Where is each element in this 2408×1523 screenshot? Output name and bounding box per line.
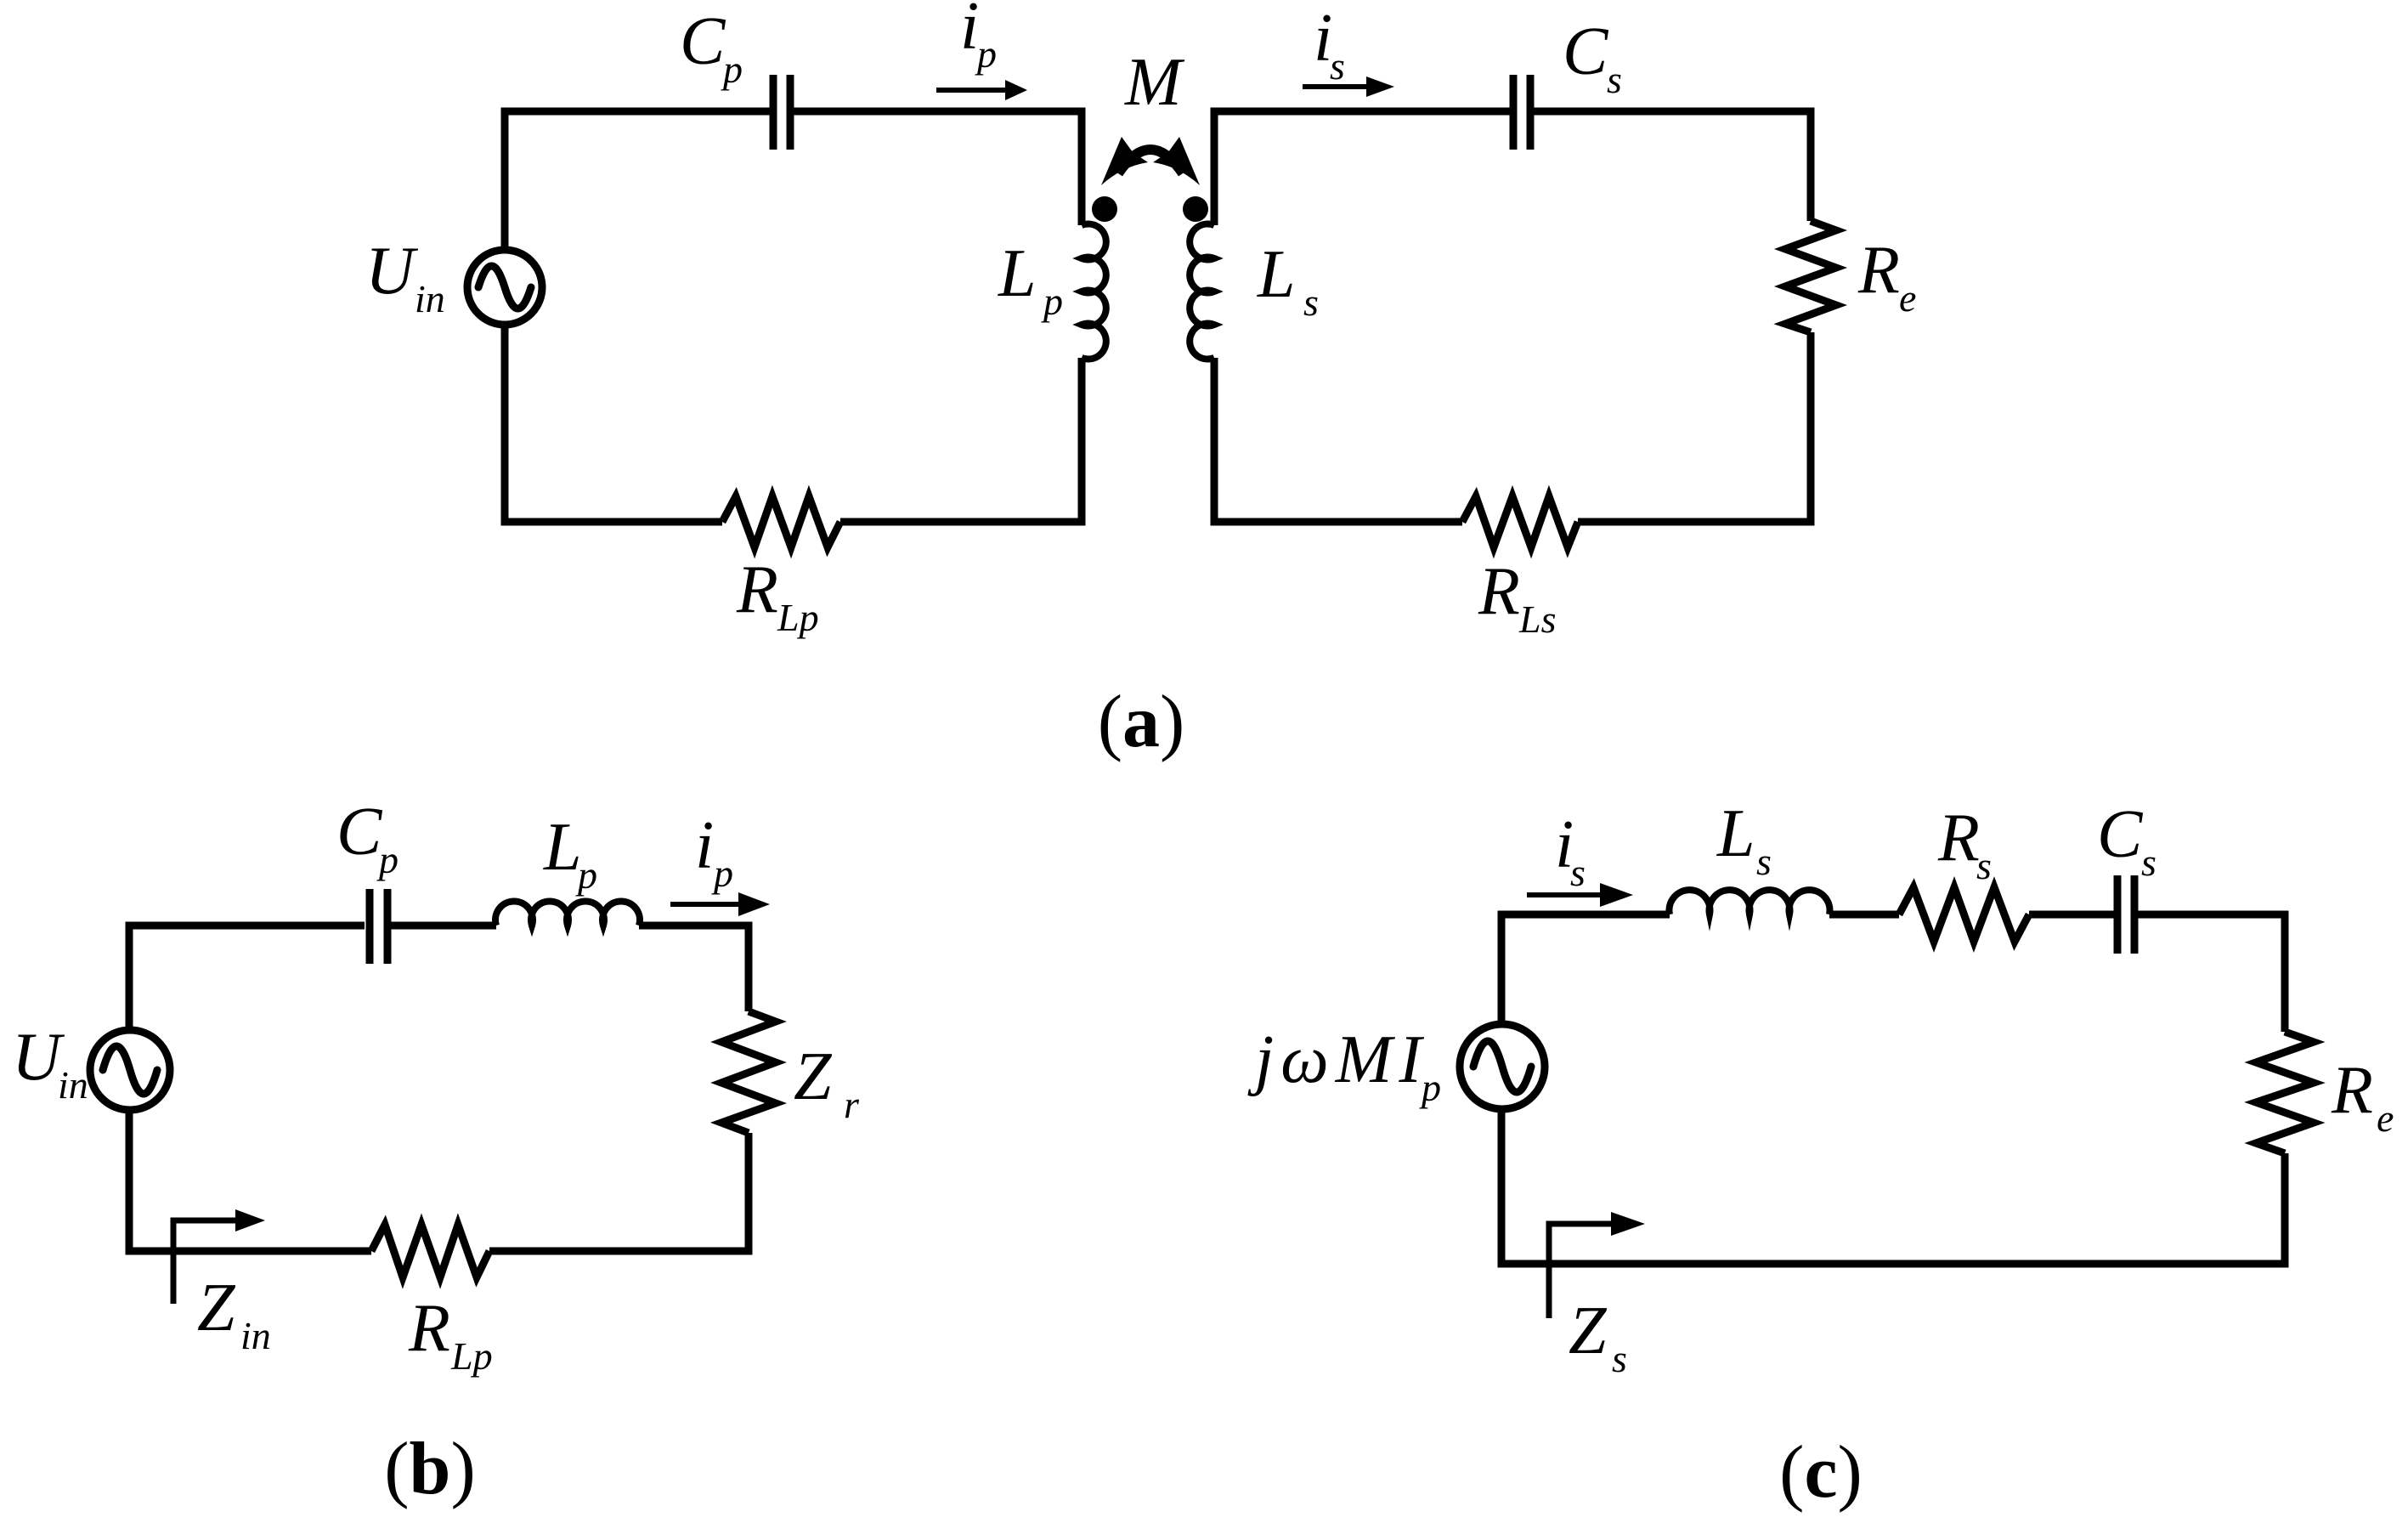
svg-text:r: r bbox=[844, 1083, 860, 1126]
svg-text:R: R bbox=[2331, 1053, 2373, 1128]
svg-text:s: s bbox=[2141, 841, 2156, 884]
svg-text:p: p bbox=[376, 838, 399, 881]
svg-text:s: s bbox=[1330, 44, 1345, 88]
svg-text:s: s bbox=[1607, 58, 1622, 101]
svg-text:Lp: Lp bbox=[450, 1334, 493, 1378]
svg-text:(a): (a) bbox=[1098, 681, 1185, 763]
svg-text:Lp: Lp bbox=[777, 596, 819, 639]
svg-text:(c): (c) bbox=[1779, 1431, 1863, 1514]
svg-text:(b): (b) bbox=[384, 1428, 476, 1510]
svg-text:R: R bbox=[1937, 801, 1980, 875]
svg-text:Z: Z bbox=[197, 1271, 236, 1345]
svg-text:M: M bbox=[1124, 45, 1185, 120]
svg-text:p: p bbox=[575, 853, 597, 897]
svg-text:Z: Z bbox=[794, 1039, 833, 1114]
svg-text:C: C bbox=[680, 4, 726, 79]
svg-text:p: p bbox=[975, 32, 997, 76]
svg-text:i: i bbox=[960, 0, 979, 64]
svg-text:s: s bbox=[1612, 1337, 1627, 1380]
svg-text:i: i bbox=[695, 808, 714, 883]
svg-text:p: p bbox=[1419, 1066, 1441, 1109]
svg-text:R: R bbox=[408, 1291, 450, 1366]
svg-text:jωMI: jωMI bbox=[1247, 1022, 1428, 1097]
svg-text:p: p bbox=[721, 48, 743, 91]
svg-text:Z: Z bbox=[1569, 1294, 1608, 1368]
svg-text:in: in bbox=[58, 1063, 88, 1107]
svg-text:s: s bbox=[1303, 280, 1319, 324]
svg-text:L: L bbox=[1716, 796, 1755, 871]
svg-text:p: p bbox=[711, 852, 733, 895]
svg-text:L: L bbox=[1257, 237, 1296, 312]
svg-text:s: s bbox=[1976, 844, 1992, 887]
svg-text:C: C bbox=[336, 795, 383, 869]
svg-text:Ls: Ls bbox=[1518, 597, 1556, 641]
svg-text:R: R bbox=[1478, 554, 1520, 629]
svg-text:p: p bbox=[1041, 280, 1063, 323]
svg-text:in: in bbox=[240, 1314, 271, 1357]
svg-text:C: C bbox=[2097, 797, 2144, 872]
svg-text:e: e bbox=[1899, 276, 1916, 320]
svg-text:U: U bbox=[365, 234, 419, 309]
svg-text:s: s bbox=[1570, 851, 1586, 894]
svg-text:s: s bbox=[1756, 840, 1772, 883]
svg-text:L: L bbox=[998, 236, 1037, 311]
svg-text:e: e bbox=[2377, 1096, 2394, 1140]
svg-text:L: L bbox=[543, 810, 582, 885]
svg-text:R: R bbox=[1857, 233, 1900, 308]
svg-text:in: in bbox=[415, 277, 445, 320]
svg-text:R: R bbox=[736, 552, 778, 627]
svg-text:C: C bbox=[1563, 14, 1609, 89]
